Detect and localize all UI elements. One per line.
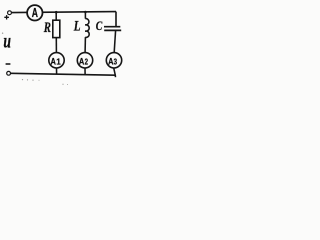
faint scan specks (noise) (2, 33, 68, 86)
capacitor C plates (104, 27, 121, 31)
ammeter U1 A (27, 5, 42, 20)
wire C to A3 (114, 30, 115, 52)
svg-text:R: R (43, 20, 51, 36)
wire L to A2 (84, 37, 86, 52)
wire A1 to bottom (56, 68, 58, 73)
wire bottom (from - terminal to bottom-right corner) (11, 73, 116, 75)
wire R to A1 (55, 38, 57, 53)
svg-text:1: 1 (56, 57, 61, 66)
svg-text:2: 2 (85, 57, 89, 66)
svg-text:L: L (73, 19, 81, 35)
ammeter U4 A3 (106, 53, 121, 68)
wire R branch top (55, 12, 57, 20)
wire L branch top (84, 12, 86, 19)
junction node R branch (55, 11, 58, 14)
wire A2 to bottom (84, 68, 86, 74)
svg-text:C: C (96, 18, 103, 33)
ammeter U3 A2 (77, 53, 92, 68)
svg-text:u: u (3, 30, 11, 52)
resistor R (53, 20, 60, 37)
inductor L (coil) (85, 19, 89, 38)
svg-text:A: A (51, 56, 57, 66)
terminal + (positive input) (8, 11, 12, 15)
wire right leg top (corner to capacitor) (115, 12, 117, 27)
ammeter U2 A1 (49, 53, 64, 68)
label - (minus sign) (6, 63, 11, 65)
terminal - (negative input) (7, 71, 11, 75)
label + (4, 15, 9, 19)
wire A3 to bottom corner (114, 68, 116, 77)
svg-text:A: A (32, 6, 38, 20)
wire top (from + terminal to top-right corner) (12, 12, 117, 13)
svg-text:3: 3 (114, 57, 118, 66)
junction node L branch (84, 11, 87, 14)
